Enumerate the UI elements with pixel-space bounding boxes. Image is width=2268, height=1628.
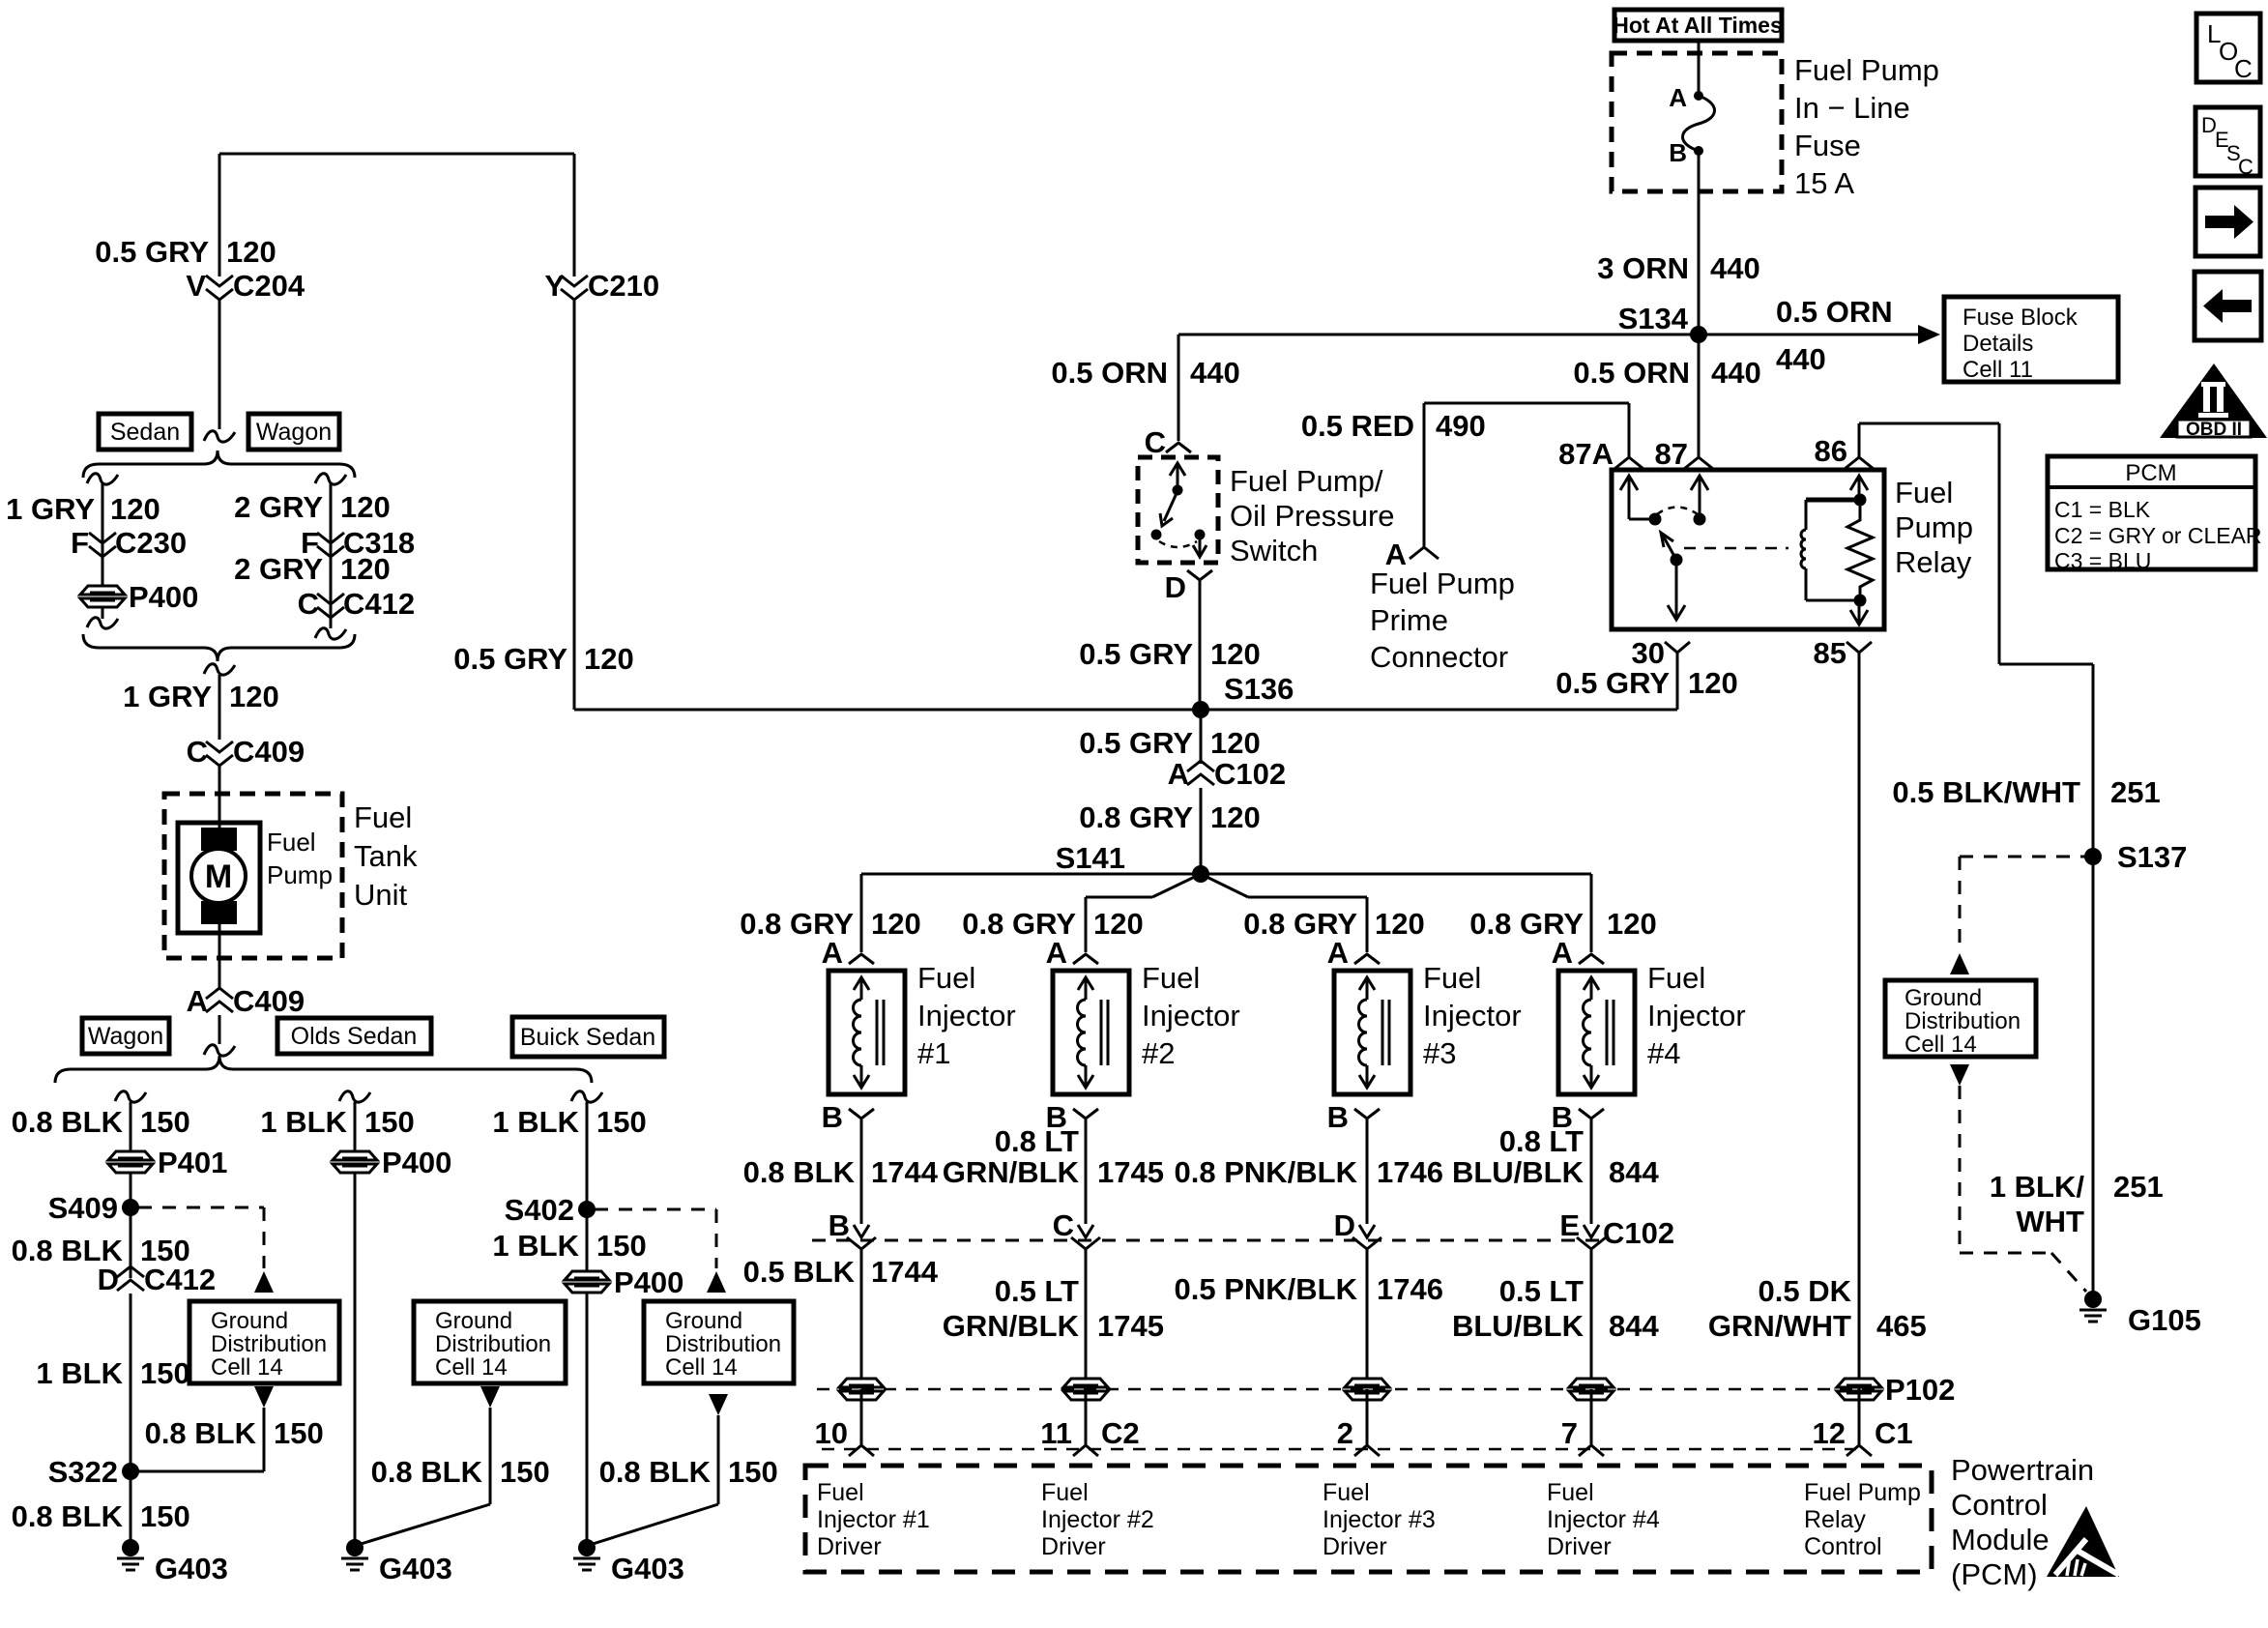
svg-text:Control: Control [1951, 1488, 2048, 1522]
label Fuel Pump/ Oil Pressure Switch [1230, 464, 1395, 567]
dashed link S409 to ground dist cell [138, 1207, 264, 1268]
label 1 GRY 120 (sedan) [6, 492, 160, 526]
fuel injector #1 box [829, 971, 905, 1094]
svg-text:WHT: WHT [2016, 1205, 2084, 1238]
connector C210 pin Y [544, 269, 659, 303]
svg-text:0.5 GRY: 0.5 GRY [453, 642, 567, 676]
svg-text:C: C [1145, 425, 1166, 459]
svg-text:1745: 1745 [1097, 1155, 1164, 1189]
svg-text:Cell 11: Cell 11 [1963, 357, 2033, 383]
svg-text:2 GRY: 2 GRY [234, 552, 323, 586]
label 0.5 LT GRN/BLK 1745 [943, 1274, 1164, 1343]
svg-text:490: 490 [1436, 409, 1486, 443]
fuse pin B label [1669, 138, 1687, 167]
wire injector #4 pin B down [1590, 1119, 1593, 1224]
ground distribution cell 14 box 3 [644, 1301, 794, 1383]
ground distribution cell 14 box 1 [189, 1301, 339, 1383]
svg-text:11: 11 [1040, 1416, 1072, 1450]
injector #1 pin B [822, 1100, 874, 1134]
wire olds column upper [354, 1102, 357, 1151]
svg-text:0.8 BLK: 0.8 BLK [743, 1155, 856, 1189]
label Fuel Tank Unit [354, 800, 418, 912]
relay pin 30 below [1632, 636, 1690, 670]
wire drop injector 1 [860, 874, 863, 952]
label 0.8 BLK 1744 [743, 1155, 939, 1189]
svg-text:A: A [1168, 757, 1189, 791]
svg-text:Wagon: Wagon [88, 1023, 163, 1050]
PCM pin 7 [1561, 1389, 1604, 1456]
label 2 GRY 120 (wagon upper) [234, 490, 391, 524]
svg-text:Cell 14: Cell 14 [211, 1354, 283, 1381]
svg-text:A: A [187, 984, 208, 1018]
svg-text:120: 120 [340, 490, 391, 524]
svg-text:M: M [205, 858, 232, 895]
svg-text:0.5 RED: 0.5 RED [1301, 409, 1414, 443]
arrow into ground dist box 1 [254, 1271, 274, 1293]
svg-text:120: 120 [110, 492, 160, 526]
svg-text:0.8 BLK: 0.8 BLK [599, 1455, 712, 1489]
wire hot feed into fuse [1698, 41, 1701, 96]
injector #3 pin B [1327, 1100, 1380, 1134]
svg-text:Fuel Pump: Fuel Pump [1370, 567, 1515, 600]
svg-text:Fuel: Fuel [1041, 1479, 1089, 1506]
switch pin C [1145, 425, 1191, 459]
relay coil [1801, 500, 1806, 600]
wire fuse to S134 [1698, 151, 1701, 334]
svg-text:2 GRY: 2 GRY [234, 490, 323, 524]
wire to C409 [218, 675, 221, 740]
break squiggle under brace [204, 664, 235, 675]
svg-text:120: 120 [1375, 907, 1425, 941]
relay coil bottom bus [1806, 595, 1867, 607]
connector P102 pass-through (injector 3) [1345, 1379, 1389, 1400]
svg-text:Tank: Tank [354, 839, 418, 873]
svg-text:C1 = BLK: C1 = BLK [2054, 497, 2151, 522]
ground G105 [2079, 1291, 2201, 1337]
relay 85 internal arrow [1850, 600, 1868, 625]
svg-text:120: 120 [584, 642, 634, 676]
relay pin 87 [1655, 437, 1713, 471]
closing brace under branches [83, 634, 355, 661]
switch throw contact [1193, 530, 1207, 558]
svg-text:BLU/BLK: BLU/BLK [1452, 1309, 1585, 1343]
wire through motor [218, 829, 221, 933]
wagon column break hook [115, 1091, 146, 1102]
svg-text:120: 120 [1093, 907, 1144, 941]
label 0.5 ORN 440 (to relay 87) [1573, 356, 1760, 390]
svg-text:Fuel: Fuel [267, 828, 316, 857]
label 1 GRY 120 (trunk) [123, 680, 279, 713]
svg-text:Sedan: Sedan [110, 419, 180, 446]
svg-text:0.5 GRY: 0.5 GRY [1079, 637, 1193, 671]
svg-text:0.5 GRY: 0.5 GRY [95, 235, 209, 269]
svg-text:#2: #2 [1142, 1036, 1175, 1070]
svg-text:#3: #3 [1423, 1036, 1456, 1070]
wire C412 to S322 [130, 1294, 132, 1471]
fuel pump in-line fuse dashed box [1612, 53, 1782, 191]
svg-text:0.8 BLK: 0.8 BLK [371, 1455, 483, 1489]
PCM pin 12 [1813, 1389, 1913, 1456]
svg-text:Fuel: Fuel [354, 800, 412, 834]
wagon branch break hook [315, 474, 346, 484]
svg-text:844: 844 [1609, 1309, 1659, 1343]
svg-text:150: 150 [364, 1105, 415, 1139]
label 0.5 GRY 120 (S136 branch down) [1079, 726, 1260, 760]
connector C102 dashed line [812, 1239, 1600, 1242]
relay mechanical dashed link [1684, 547, 1788, 550]
connector C102 pin B [829, 1208, 876, 1381]
svg-text:Control: Control [1804, 1533, 1882, 1560]
wire sedan branch [102, 483, 104, 586]
PCM driver label 2 [1041, 1479, 1154, 1560]
ground G403 (buick) [573, 1539, 684, 1585]
connector C412 pin D [98, 1263, 217, 1296]
label Fuel Pump In-Line Fuse 15 A [1794, 53, 1939, 200]
connector P401 [108, 1146, 227, 1179]
PCM driver label 5 [1804, 1479, 1921, 1560]
svg-text:120: 120 [226, 235, 276, 269]
dashed link S137 to ground dist 4 [1960, 857, 2085, 951]
svg-text:#4: #4 [1647, 1036, 1680, 1070]
label C102 (row) [1603, 1216, 1674, 1250]
svg-text:C412: C412 [343, 587, 415, 621]
relay coil top bus [1806, 494, 1867, 507]
arrow out of ground dist box 1 [254, 1386, 274, 1408]
wire S134 down to relay pin 87 [1698, 334, 1701, 456]
injector #2 pin B [1046, 1100, 1098, 1134]
wire drop injector 2 [1085, 897, 1088, 952]
svg-text:P400: P400 [614, 1265, 683, 1299]
svg-text:87: 87 [1655, 437, 1688, 471]
wire drop to connector C210 [573, 154, 576, 276]
injector 4 pin A [1552, 936, 1604, 970]
svg-text:7: 7 [1561, 1416, 1578, 1450]
svg-text:C409: C409 [233, 984, 305, 1018]
relay 86 internal arrow [1850, 476, 1868, 500]
connector C102 pin E [1559, 1208, 1606, 1381]
relay 87A internal arrow [1620, 476, 1662, 526]
wire P400 buick to G403-3 [586, 1293, 589, 1548]
label 0.8 GRY 120 (injector 2) [962, 907, 1143, 941]
svg-text:C102: C102 [1603, 1216, 1674, 1250]
label 0.5 GRY 120 [95, 235, 276, 269]
svg-text:C409: C409 [233, 735, 305, 769]
switch pin D [1165, 570, 1212, 604]
svg-text:B: B [1327, 1100, 1349, 1134]
svg-text:1746: 1746 [1377, 1272, 1443, 1306]
svg-text:Pump: Pump [1895, 510, 1973, 544]
label 3 ORN 440 [1597, 251, 1759, 285]
label 0.5 RED 490 [1301, 409, 1486, 443]
hook below C412 [315, 628, 346, 639]
svg-text:0.5 BLK: 0.5 BLK [743, 1255, 856, 1289]
label 0.8 BLK 150 (to G403-1) [12, 1499, 190, 1533]
svg-text:GRN/BLK: GRN/BLK [943, 1155, 1080, 1189]
label 0.8 GRY 120 (injector 3) [1243, 907, 1424, 941]
svg-text:C102: C102 [1214, 757, 1286, 791]
svg-text:150: 150 [728, 1455, 778, 1489]
svg-text:Relay: Relay [1895, 545, 1972, 579]
wire below P400 + hook [87, 607, 118, 628]
svg-text:150: 150 [140, 1499, 190, 1533]
wire motor to C409-A [218, 933, 221, 988]
svg-text:465: 465 [1876, 1309, 1927, 1343]
svg-text:844: 844 [1609, 1155, 1659, 1189]
splice S402 [505, 1193, 596, 1227]
wire relay 85 down to P102 [1858, 653, 1861, 1389]
connector C102 pin C [1053, 1208, 1100, 1381]
connector P102 pass-through (injector 1) [839, 1379, 884, 1400]
svg-text:3 ORN: 3 ORN [1597, 251, 1689, 285]
svg-text:0.5 DK: 0.5 DK [1759, 1274, 1852, 1308]
svg-text:Cell 14: Cell 14 [1905, 1032, 1977, 1058]
injector 2 pin A [1046, 936, 1098, 970]
svg-text:Hot At All Times: Hot At All Times [1613, 13, 1783, 38]
svg-text:Distribution: Distribution [435, 1331, 551, 1357]
label 0.8 GRY 120 (C102 to S141) [1079, 800, 1260, 834]
break squiggle above lower brace [204, 1045, 235, 1056]
fuel injector #2 box [1053, 971, 1129, 1094]
svg-text:G403: G403 [611, 1552, 684, 1585]
wire C102 to S141 [1200, 788, 1203, 874]
wire prime connector to relay 87A [1424, 403, 1629, 546]
svg-text:B: B [822, 1100, 843, 1134]
svg-text:150: 150 [596, 1229, 647, 1263]
dashed link ground dist 4 to G105 [1960, 1086, 2086, 1292]
svg-text:Fuel: Fuel [817, 1479, 864, 1506]
svg-text:Driver: Driver [1323, 1533, 1387, 1560]
svg-text:150: 150 [596, 1105, 647, 1139]
svg-text:Fuel: Fuel [1647, 961, 1705, 995]
svg-text:Fuel: Fuel [1142, 961, 1200, 995]
svg-text:D: D [1165, 570, 1186, 604]
fuel injector #4 box [1558, 971, 1635, 1094]
label 0.8 GRY 120 (injector 1) [740, 907, 920, 941]
label 2 GRY 120 (wagon lower) [234, 552, 391, 586]
label 0.8 BLK 150 (above C412) [12, 1234, 190, 1267]
wire S134 left to switch drop [1178, 334, 1699, 336]
right arrow icon box [2195, 188, 2260, 256]
PCM pin 11 [1040, 1389, 1139, 1456]
svg-text:C412: C412 [144, 1263, 216, 1296]
svg-text:1745: 1745 [1097, 1309, 1164, 1343]
powertrain control module dashed box [805, 1466, 1932, 1572]
svg-text:G403: G403 [379, 1552, 452, 1585]
svg-text:C3 = BLU: C3 = BLU [2054, 548, 2151, 573]
svg-text:120: 120 [229, 680, 279, 713]
svg-text:Y: Y [544, 269, 565, 303]
svg-text:440: 440 [1190, 356, 1240, 390]
S141 diagonal right [1201, 874, 1367, 897]
label 0.8 LT BLU/BLK 844 [1452, 1124, 1660, 1189]
wire buick column upper [586, 1102, 589, 1209]
svg-text:P102: P102 [1885, 1373, 1955, 1407]
svg-text:Fuel Pump: Fuel Pump [1794, 53, 1939, 87]
Hot At All Times box [1613, 10, 1783, 41]
label Fuel Pump Relay [1895, 476, 1973, 579]
svg-text:C204: C204 [233, 269, 305, 303]
injector #4 pin B [1552, 1100, 1604, 1134]
fuse element [1683, 91, 1715, 156]
svg-text:Driver: Driver [817, 1533, 882, 1560]
fuel pump motor box [178, 823, 260, 933]
label Fuel Injector #4 [1647, 961, 1746, 1070]
svg-text:Fuse Block: Fuse Block [1963, 305, 2079, 331]
svg-text:S137: S137 [2117, 840, 2187, 874]
ground G403 (olds) [341, 1539, 452, 1585]
svg-text:C1: C1 [1875, 1416, 1913, 1450]
fuse block details cell 11 box [1944, 297, 2118, 383]
wire S136 to relay pin 30 leg [1201, 654, 1677, 710]
svg-text:C: C [298, 587, 319, 621]
splice S134 [1618, 302, 1707, 343]
svg-text:P401: P401 [158, 1146, 227, 1179]
connector C102 pin D [1334, 1208, 1381, 1381]
svg-text:S409: S409 [48, 1191, 118, 1225]
svg-text:120: 120 [1607, 907, 1657, 941]
connector C204 pin V [186, 269, 305, 303]
svg-text:A: A [1327, 936, 1349, 970]
svg-text:0.5 BLK/WHT: 0.5 BLK/WHT [1892, 775, 2080, 809]
svg-text:A: A [1552, 936, 1573, 970]
svg-text:P400: P400 [382, 1146, 451, 1179]
connector P102 pass-through (relay control) [1837, 1373, 1955, 1407]
prime connector pin A [1385, 538, 1439, 571]
wire to lower brace [218, 1015, 221, 1044]
wire S409 to C412 [130, 1207, 132, 1278]
svg-text:In − Line: In − Line [1794, 91, 1910, 125]
svg-text:85: 85 [1814, 636, 1846, 670]
relay pin 86 [1815, 434, 1874, 469]
label 0.8 GRY 120 (injector 4) [1469, 907, 1656, 941]
svg-text:Oil Pressure: Oil Pressure [1230, 499, 1395, 533]
svg-text:Injector #1: Injector #1 [817, 1506, 930, 1533]
Wagon box (lower) [82, 1018, 169, 1054]
svg-text:1 BLK: 1 BLK [260, 1105, 347, 1139]
svg-text:Fuel: Fuel [917, 961, 975, 995]
svg-text:120: 120 [1210, 637, 1261, 671]
label 1 BLK 150 (wagon) [36, 1356, 189, 1390]
wire wagon branch [330, 483, 333, 628]
svg-text:Powertrain: Powertrain [1951, 1453, 2094, 1487]
fuel injector #2 coil symbol [1078, 977, 1109, 1088]
svg-text:D: D [98, 1263, 119, 1296]
label 1 BLK 150 (below S402) [492, 1229, 646, 1263]
svg-text:OBD II: OBD II [2186, 420, 2242, 440]
svg-text:1 BLK: 1 BLK [492, 1229, 579, 1263]
splice S137 [2084, 840, 2187, 874]
LOC icon box [2196, 14, 2260, 83]
wire drop injector 3 [1366, 897, 1369, 952]
svg-text:440: 440 [1776, 342, 1826, 376]
svg-text:Fuel Pump/: Fuel Pump/ [1230, 464, 1383, 498]
PCM driver label 1 [817, 1479, 930, 1560]
svg-text:S134: S134 [1618, 302, 1689, 335]
label Fuel Injector #2 [1142, 961, 1240, 1070]
svg-text:Ground: Ground [665, 1308, 742, 1334]
svg-text:2: 2 [1337, 1416, 1353, 1450]
label 0.5 BLK 1744 [743, 1255, 939, 1289]
wire S402 to P400 [586, 1209, 589, 1271]
brace over sedan/wagon branches [83, 451, 355, 478]
svg-text:150: 150 [140, 1356, 190, 1390]
svg-text:0.5 ORN: 0.5 ORN [1573, 356, 1690, 390]
wire S137 to G105 [2092, 857, 2095, 1299]
S141 diagonal left [1086, 874, 1201, 897]
svg-text:150: 150 [500, 1455, 550, 1489]
splice S322 [48, 1455, 139, 1489]
svg-text:1 GRY: 1 GRY [6, 492, 95, 526]
wire P401 to S409 [130, 1173, 132, 1207]
splice S409 [48, 1191, 139, 1225]
label 0.8 LT GRN/BLK 1745 [943, 1124, 1164, 1189]
label 1 BLK 150 (olds) [260, 1105, 414, 1139]
svg-text:Cell 14: Cell 14 [435, 1354, 508, 1381]
PCM pin 2 [1337, 1389, 1380, 1456]
svg-text:0.8 BLK: 0.8 BLK [145, 1416, 257, 1450]
svg-text:Pump: Pump [267, 860, 333, 889]
svg-text:B: B [1669, 138, 1687, 167]
svg-text:150: 150 [140, 1105, 190, 1139]
svg-text:C: C [2238, 155, 2253, 179]
svg-text:C2: C2 [1101, 1416, 1140, 1450]
wire wagon column upper [130, 1102, 132, 1151]
wire C409 to fuel tank unit [218, 766, 221, 829]
connector C230 pin F [71, 526, 187, 560]
connector C102 pin A [1168, 757, 1287, 791]
svg-text:Driver: Driver [1041, 1533, 1106, 1560]
label Fuel Injector #3 [1423, 961, 1522, 1070]
svg-text:1744: 1744 [871, 1155, 939, 1189]
svg-text:Fuel: Fuel [1323, 1479, 1370, 1506]
svg-text:(PCM): (PCM) [1951, 1557, 2038, 1591]
svg-text:S136: S136 [1224, 672, 1294, 706]
connector C409 pin C [187, 735, 305, 769]
svg-text:87A: 87A [1558, 437, 1614, 471]
connector C409 pin A [187, 984, 305, 1018]
svg-text:0.8 LT: 0.8 LT [1499, 1124, 1584, 1158]
svg-text:15 A: 15 A [1794, 166, 1854, 200]
svg-text:Fuel Pump: Fuel Pump [1804, 1479, 1921, 1506]
label Powertrain Control Module (PCM) [1951, 1453, 2094, 1591]
fuel tank unit dashed box [164, 794, 342, 958]
svg-text:C: C [2234, 54, 2253, 83]
fuel injector #3 box [1334, 971, 1410, 1094]
label 0.5 DK GRN/WHT 465 [1708, 1274, 1927, 1343]
svg-text:Injector: Injector [917, 999, 1016, 1032]
arrow into ground dist box 3 [707, 1271, 726, 1293]
svg-text:Distribution: Distribution [211, 1331, 327, 1357]
svg-text:Ground: Ground [1905, 985, 1982, 1011]
svg-text:C: C [1053, 1208, 1074, 1242]
svg-text:Injector #2: Injector #2 [1041, 1506, 1154, 1533]
PCM driver label 4 [1547, 1479, 1660, 1560]
brace over three ground branches [55, 1056, 592, 1083]
svg-text:Distribution: Distribution [1905, 1008, 2021, 1034]
label Fuel Pump Prime Connector [1370, 567, 1515, 674]
PCM pin dashed line [822, 1448, 1856, 1451]
wire drop injector 4 [1590, 874, 1593, 952]
relay 87 internal arrow [1691, 476, 1708, 526]
label 0.8 BLK 150 (ground dist 1 drop) [145, 1416, 324, 1450]
connector P400 (buick) [565, 1265, 683, 1299]
wire bend to S136 [574, 709, 1193, 712]
ground distribution cell 14 box 2 [414, 1301, 566, 1383]
svg-text:1 BLK: 1 BLK [36, 1356, 123, 1390]
dashed link S402 to ground dist cell 3 [595, 1209, 716, 1268]
svg-text:Ground: Ground [435, 1308, 512, 1334]
svg-text:GRN/WHT: GRN/WHT [1708, 1309, 1851, 1343]
